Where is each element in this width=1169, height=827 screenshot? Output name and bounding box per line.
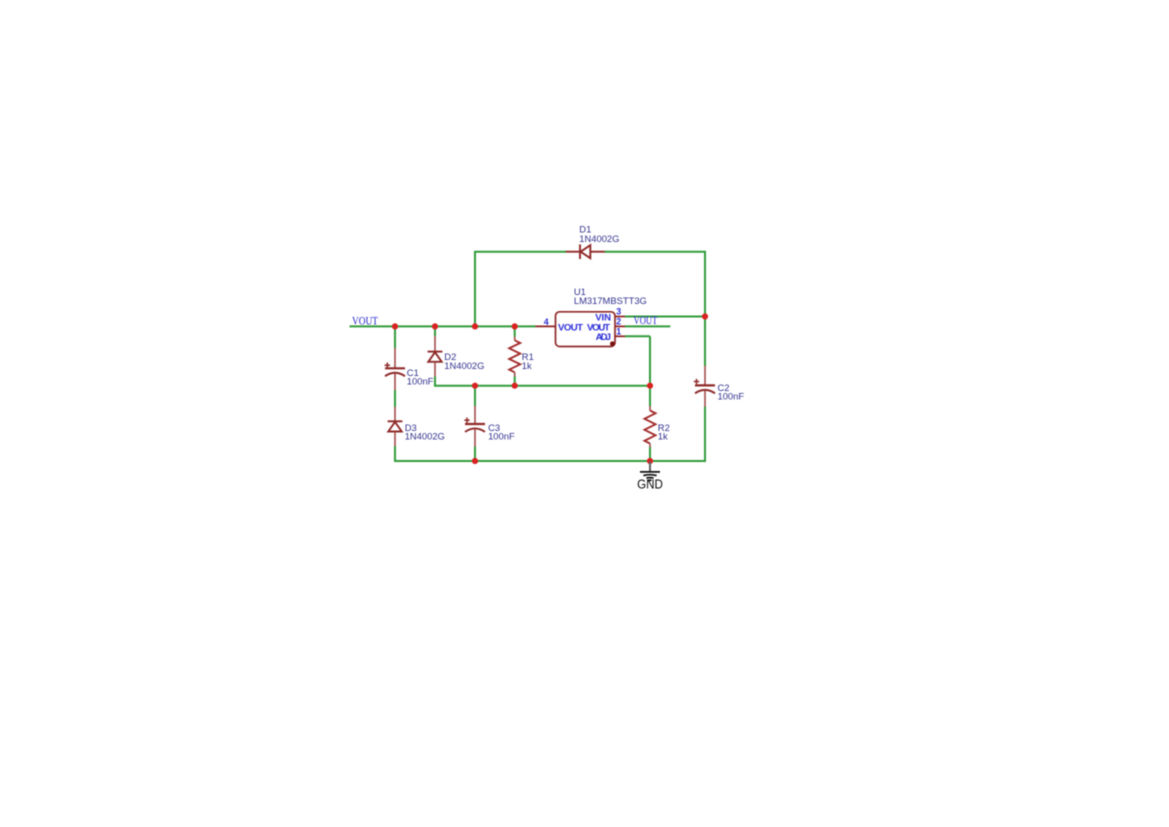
- svg-text:1k: 1k: [658, 431, 668, 442]
- junction on main at riser: [472, 323, 478, 329]
- svg-text:VOUT: VOUT: [352, 315, 378, 327]
- wire ADJ horizontal: [625, 335, 650, 337]
- pin 4 stub: [536, 325, 556, 327]
- wire main horizontal VOUT net: [350, 325, 536, 327]
- label U1 LM317MBSTT3G: [574, 286, 647, 306]
- pin 3 stub: [615, 316, 625, 318]
- pin 1 stub: [615, 335, 625, 337]
- resistor R2: [645, 406, 656, 447]
- svg-text:4: 4: [544, 317, 549, 327]
- diode D2: [428, 336, 443, 377]
- junction on main at C1: [392, 323, 398, 329]
- svg-text:1N4002G: 1N4002G: [579, 233, 619, 244]
- wire R2 bottom: [649, 447, 651, 461]
- label C3 100nF: [488, 422, 515, 442]
- wire ADJ vertical: [649, 336, 651, 406]
- svg-text:100nF: 100nF: [488, 431, 515, 442]
- junction bottom at GND: [647, 458, 653, 464]
- junction on main at D2: [432, 323, 438, 329]
- wire VIN pin3: [625, 316, 705, 318]
- wire D3 bottom: [394, 446, 396, 462]
- wire top right of D1: [605, 251, 707, 253]
- svg-text:3: 3: [616, 307, 621, 317]
- svg-text:1N4002G: 1N4002G: [405, 431, 445, 442]
- svg-text:100nF: 100nF: [407, 376, 434, 387]
- wire bottom horizontal GND net: [394, 460, 706, 462]
- wire top left of D1: [474, 251, 566, 253]
- label R2 1k: [658, 422, 670, 442]
- junction on main at R1: [512, 323, 518, 329]
- label C2 100nF: [718, 382, 745, 402]
- capacitor C3: [464, 406, 485, 447]
- svg-text:VOUT: VOUT: [634, 315, 658, 327]
- wire mid horizontal: [435, 385, 650, 387]
- junction bottom at C3: [472, 458, 478, 464]
- svg-text:GND: GND: [637, 478, 663, 492]
- label D2 1N4002G: [444, 351, 484, 371]
- label C1 100nF: [407, 367, 434, 387]
- junction mid at R2: [647, 383, 653, 389]
- ground: [640, 462, 660, 482]
- resistor R1: [509, 337, 520, 377]
- wire D2 bottom: [434, 376, 436, 387]
- label D1 1N4002G: [579, 224, 619, 244]
- wire right vertical lower: [704, 407, 706, 462]
- op-amp U1 body: [556, 312, 616, 347]
- junction mid at R1: [512, 383, 518, 389]
- junction mid at C3: [472, 383, 478, 389]
- svg-text:1N4002G: 1N4002G: [444, 360, 484, 371]
- wire C3 bottom: [474, 447, 476, 462]
- svg-text:1k: 1k: [522, 360, 532, 371]
- diode D3: [388, 407, 403, 446]
- junction VIN right: [702, 313, 708, 319]
- wire right vertical upper: [704, 252, 706, 366]
- label R1 1k: [522, 351, 534, 371]
- svg-text:VOUT: VOUT: [558, 322, 583, 333]
- pin 2 stub: [615, 325, 625, 327]
- wire C1 to D3: [394, 390, 396, 407]
- svg-text:ADJ: ADJ: [596, 332, 611, 343]
- label D3 1N4002G: [405, 422, 445, 442]
- wire riser to top: [474, 252, 476, 327]
- wire C3 top: [474, 386, 476, 406]
- wire C1 top: [394, 326, 396, 348]
- svg-text:100nF: 100nF: [718, 390, 745, 401]
- wire D2 top: [434, 326, 436, 336]
- capacitor C1: [385, 348, 405, 390]
- svg-text:1: 1: [616, 327, 621, 337]
- svg-text:LM317MBSTT3G: LM317MBSTT3G: [574, 295, 647, 306]
- diode D1: [566, 244, 605, 259]
- capacitor C2: [694, 366, 715, 407]
- wire VOUT pin2 stub: [625, 325, 670, 327]
- svg-text:2: 2: [616, 317, 621, 327]
- wire R1 top: [514, 326, 516, 336]
- wire R1 bottom: [514, 376, 516, 386]
